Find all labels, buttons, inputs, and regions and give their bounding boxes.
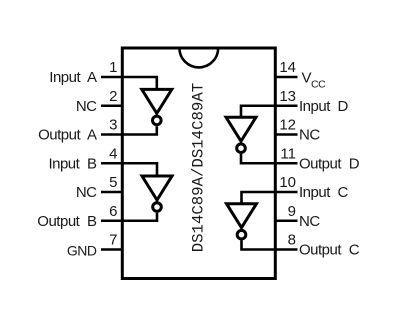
- svg-text:6: 6: [109, 203, 117, 220]
- svg-text:9: 9: [288, 203, 296, 220]
- svg-text:Output A: Output A: [38, 127, 97, 144]
- svg-text:7: 7: [109, 232, 117, 249]
- svg-text:4: 4: [109, 145, 117, 162]
- svg-text:12: 12: [279, 117, 296, 134]
- svg-text:GND: GND: [67, 242, 97, 258]
- svg-text:Output D: Output D: [299, 155, 360, 172]
- svg-text:2: 2: [109, 88, 117, 105]
- svg-text:NC: NC: [76, 98, 97, 115]
- svg-text:11: 11: [280, 145, 296, 162]
- svg-text:1: 1: [109, 59, 117, 76]
- svg-text:NC: NC: [299, 213, 320, 230]
- svg-text:NC: NC: [299, 127, 320, 144]
- svg-text:8: 8: [288, 232, 296, 249]
- svg-text:Output B: Output B: [37, 213, 97, 230]
- svg-text:13: 13: [279, 88, 296, 105]
- svg-text:10: 10: [279, 174, 296, 191]
- svg-text:Input A: Input A: [49, 69, 97, 86]
- svg-text:NC: NC: [76, 184, 97, 201]
- svg-text:5: 5: [109, 174, 117, 191]
- svg-text:Input C: Input C: [299, 184, 349, 201]
- svg-text:14: 14: [279, 59, 296, 76]
- svg-text:Input B: Input B: [48, 155, 97, 172]
- svg-text:Output C: Output C: [299, 242, 360, 259]
- svg-text:DS14C89A/DS14C89AT: DS14C89A/DS14C89AT: [190, 83, 208, 252]
- svg-text:3: 3: [109, 117, 117, 134]
- svg-text:Input D: Input D: [299, 98, 349, 115]
